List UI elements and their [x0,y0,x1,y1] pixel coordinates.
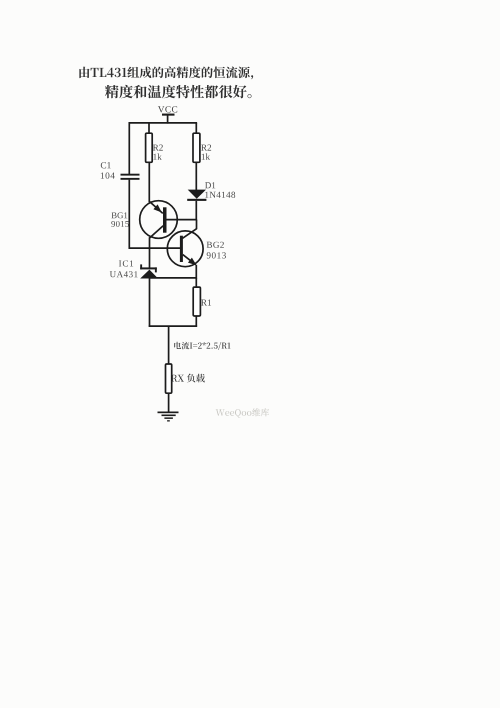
wire R1 to bottom rail [195,316,197,327]
wire base rail (to BG2 base) [129,247,181,249]
label BG2 value 9013 [207,252,226,258]
wire left branch upper (rail to C1) [128,122,130,174]
wire D1 to BG1 base junction [195,201,197,221]
wire RX to ground [168,393,170,412]
label D1 [205,182,215,188]
capacitor C1 [121,174,140,180]
resistor R2 (left) [146,133,153,162]
node VCC [162,114,175,124]
label R2 (left) [153,145,163,151]
label R1 [201,299,211,305]
wire left branch lower (C1 to base rail) [128,180,130,249]
wire bottom rail [149,325,197,327]
label IC1 [119,260,133,266]
label formula 电流I=2*2.5/R1 [174,342,230,350]
label C1 value 104 [101,172,115,178]
wire output stem [168,326,170,364]
resistor R2 (right) [193,133,200,162]
label RX 负载 [171,374,205,383]
wire BG2 emitter junction to R1 [195,278,197,288]
wire BG1 collector to IC1 cathode [149,237,151,268]
watermark WeeQoo维库 [216,408,270,417]
wire BG2 collector to base junction [196,220,198,229]
label 1k (right) [202,153,210,159]
transistor BG1 (PNP 9015) [140,201,197,239]
wire VCC rail to R2 left [148,123,150,134]
wire top rail [129,122,198,124]
label IC1 value UA431 [110,271,138,277]
IC IC1 UA431 (TL431 shunt reference) [140,264,158,278]
label VCC [158,106,177,112]
caption line 2: 精度和温度特性都很好。 [105,85,252,98]
diode D1 [187,190,206,201]
label BG2 [207,242,224,248]
label BG1 [111,212,127,218]
wire BG2 emitter down [195,265,197,279]
label C1 [101,162,111,168]
wire R2 right to D1 [195,162,197,190]
caption line 1: 由TL431组成的高精度的恒流源, [79,66,253,79]
resistor R1 [193,287,200,316]
ground [158,412,179,422]
wire VCC rail to R2 right [195,123,197,134]
label R2 (right) [201,145,211,151]
wire IC1 anode down [149,279,151,327]
label BG1 value 9015 [111,221,129,227]
transistor BG2 (NPN 9013) [167,229,203,267]
wire IC1 ref line to R1 top [150,277,197,279]
wire R2 left to BG1 emitter [148,162,150,202]
label 1k (left) [153,153,161,159]
label D1 value 1N4148 [205,192,235,198]
resistor RX (load) [166,364,172,393]
